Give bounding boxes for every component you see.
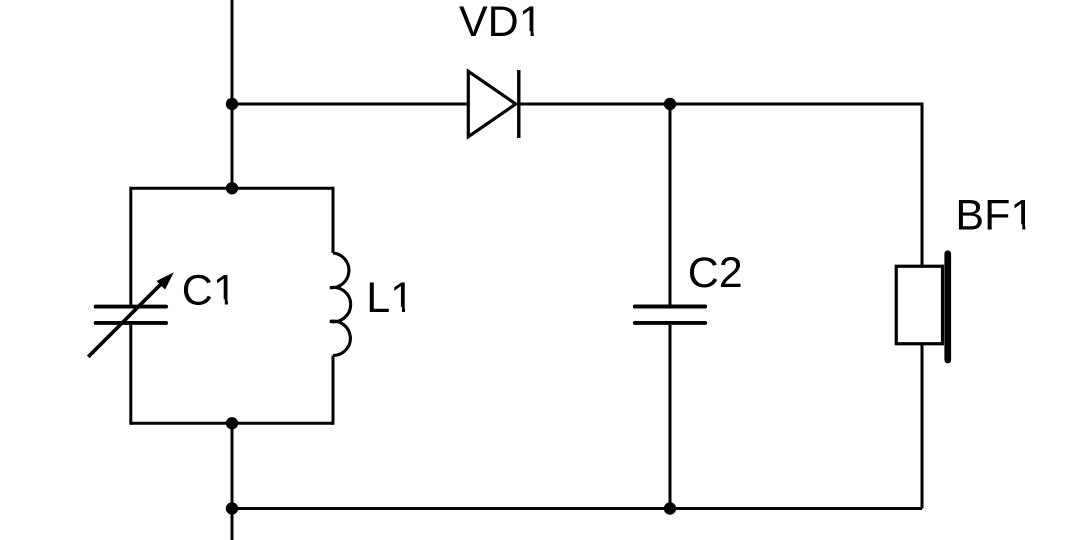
speaker BF1 [896,254,948,360]
wire bottom rail [232,507,922,510]
wire tank top [131,187,333,190]
wire right side down to speaker [921,103,924,267]
diode VD1 [468,70,519,138]
wire tank left upper [129,187,132,305]
wire tank bottom to node C [231,423,234,508]
capacitor C2 [635,307,705,323]
wire node B to top-right corner [670,103,922,106]
wire ground lead (bottom) [231,509,234,540]
svg-text:L1: L1 [366,274,414,322]
capacitor C1 (variable) [88,272,174,357]
wire node A to diode anode [232,103,468,106]
wire speaker to bottom rail [921,344,924,509]
wire diode cathode to node B [519,103,670,106]
wire antenna lead (top) [231,0,234,104]
node D junction dot [664,502,676,514]
svg-text:C2: C2 [688,249,743,297]
wire tank right lower [332,356,335,425]
wire node A to tank top [231,104,234,188]
node tank-bottom junction dot [226,417,238,429]
svg-text:C1: C1 [182,266,237,314]
svg-text:VD1: VD1 [459,0,543,46]
wire tank left lower [129,325,132,425]
wire tank right upper [332,187,335,253]
inductor L1 coil [330,253,351,356]
node A junction dot [226,98,238,110]
svg-text:BF1: BF1 [955,191,1034,239]
node tank-top junction dot [226,182,238,194]
wire tank bottom [131,422,333,425]
wire node B down to C2 [669,104,672,305]
node B junction dot [664,98,676,110]
wire C2 to bottom rail [669,325,672,509]
node C junction dot [226,502,238,514]
